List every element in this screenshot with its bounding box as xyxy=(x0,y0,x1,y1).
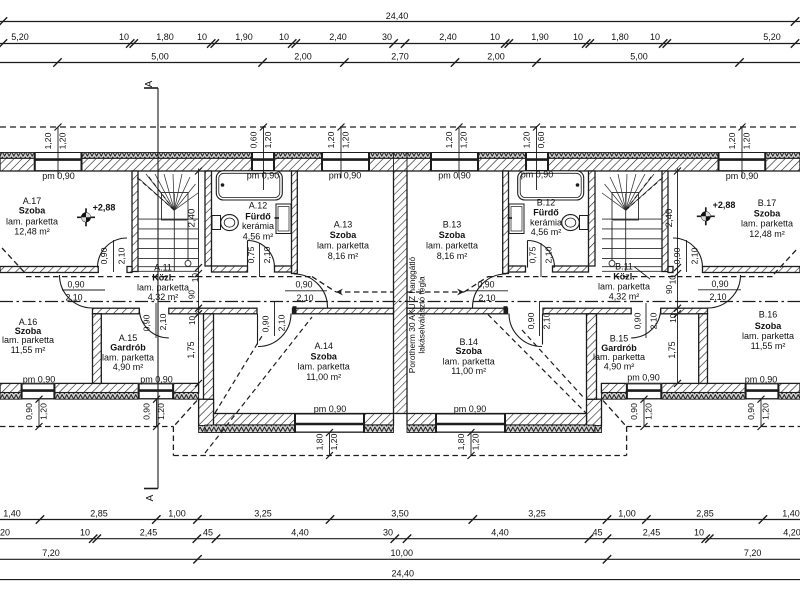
svg-text:5,00: 5,00 xyxy=(151,52,169,62)
svg-text:pm 0,90: pm 0,90 xyxy=(726,171,759,181)
door dim line B.12 (0,75 / 2,10) xyxy=(540,243,542,277)
svg-text:1,90: 1,90 xyxy=(531,32,549,42)
svg-text:lam. parketta: lam. parketta xyxy=(298,362,350,372)
svg-text:lakáselválasztó tégla: lakáselválasztó tégla xyxy=(417,276,427,354)
step wall right (B.14 east outer) xyxy=(587,399,602,426)
svg-text:24,40: 24,40 xyxy=(392,569,415,579)
top exterior wall band (brick) xyxy=(0,158,800,171)
dimension row total 24,40 (top) xyxy=(0,21,800,23)
top exterior wall insulation strip xyxy=(0,153,800,159)
window (top wall) x430 xyxy=(430,153,479,172)
svg-text:12,48 m²: 12,48 m² xyxy=(14,227,50,237)
svg-text:2,10: 2,10 xyxy=(649,312,659,329)
svg-text:lam. parketta: lam. parketta xyxy=(102,352,154,362)
stair walk line dashed rays (B unit) xyxy=(626,177,664,210)
svg-text:1,20: 1,20 xyxy=(341,131,351,148)
svg-text:Szoba: Szoba xyxy=(19,206,46,216)
corridor bottom wall segment 1 (A unit) xyxy=(93,308,140,314)
bottom exterior wall left section (brick) xyxy=(0,383,199,392)
dimension row total 24,40 (bottom) xyxy=(0,579,800,581)
section line A (vertical) xyxy=(157,88,159,489)
svg-text:4,56 m²: 4,56 m² xyxy=(531,227,562,237)
roof overhang dashed step B.13 xyxy=(464,277,488,292)
svg-text:10,00: 10,00 xyxy=(391,548,414,558)
svg-text:4,32 m²: 4,32 m² xyxy=(609,292,640,302)
svg-text:30: 30 xyxy=(383,528,393,538)
window (bottom side wall) x744 xyxy=(745,383,780,399)
svg-text:0,90: 0,90 xyxy=(67,280,84,290)
svg-text:1,75: 1,75 xyxy=(667,341,677,358)
roof dashed line with arrow (A side) xyxy=(336,291,393,293)
svg-text:3,25: 3,25 xyxy=(528,509,546,519)
svg-text:11,55 m²: 11,55 m² xyxy=(11,345,46,355)
svg-text:A.12: A.12 xyxy=(249,200,268,210)
svg-text:0,60: 0,60 xyxy=(249,131,259,148)
svg-text:1,20: 1,20 xyxy=(263,131,273,148)
svg-text:Fürdő: Fürdő xyxy=(533,208,559,218)
stair walk line start circle (B unit) xyxy=(609,260,615,266)
terrace dashed outline right vertical xyxy=(626,427,628,456)
label leader line B.11 xyxy=(634,267,650,280)
svg-text:pm 0,90: pm 0,90 xyxy=(329,171,362,181)
bathtub (B.12) xyxy=(518,171,584,200)
svg-text:1,00: 1,00 xyxy=(618,509,636,519)
svg-text:3,25: 3,25 xyxy=(254,509,272,519)
roof overhang dashed corridor line (A unit) xyxy=(26,276,312,278)
dimension row 2 (bottom) xyxy=(0,538,800,540)
svg-text:45: 45 xyxy=(203,528,213,538)
svg-text:1,20: 1,20 xyxy=(459,131,469,148)
window dim line top A.17 (1,20/1,20) xyxy=(57,127,59,178)
svg-text:10: 10 xyxy=(669,313,678,323)
svg-text:4,56 m²: 4,56 m² xyxy=(243,231,274,241)
stair winder fan (A unit) xyxy=(140,174,199,210)
dimension row 5,00/2,00/2,70 (top third row) xyxy=(0,62,800,64)
svg-text:1,00: 1,00 xyxy=(168,509,186,519)
terrace dashed outline right horizontal xyxy=(627,426,800,428)
svg-text:Szoba: Szoba xyxy=(310,351,337,361)
svg-text:10: 10 xyxy=(694,528,704,538)
svg-text:lam. parketta: lam. parketta xyxy=(317,241,369,251)
svg-text:A.17: A.17 xyxy=(23,196,42,206)
svg-text:B.11: B.11 xyxy=(615,262,633,272)
bathtub tap (B.12) xyxy=(576,183,580,187)
stair right wall (B unit) xyxy=(662,171,668,272)
svg-text:12,48 m²: 12,48 m² xyxy=(749,229,785,239)
door jamb piece B.17 xyxy=(668,267,673,273)
terrace dashed outline left horizontal xyxy=(0,426,173,428)
svg-text:A.15: A.15 xyxy=(119,333,138,343)
svg-text:B.15: B.15 xyxy=(610,333,629,343)
washbasin (A.12) xyxy=(276,204,291,234)
svg-text:1,20: 1,20 xyxy=(326,131,336,148)
svg-text:2,10: 2,10 xyxy=(709,292,726,302)
svg-text:4,32 m²: 4,32 m² xyxy=(148,292,179,302)
stair winder fan (B unit) xyxy=(602,174,661,210)
svg-text:0,90: 0,90 xyxy=(24,403,34,420)
svg-text:10: 10 xyxy=(119,32,129,42)
terrace dashed corner diagonal left xyxy=(174,401,197,427)
svg-text:A: A xyxy=(145,494,156,501)
svg-text:0,90: 0,90 xyxy=(711,279,728,289)
bathtub tap (A.12) xyxy=(221,183,225,187)
svg-text:2,00: 2,00 xyxy=(487,52,505,62)
door arc A.13 (corridor east end) xyxy=(294,274,328,308)
svg-text:pm 0,90: pm 0,90 xyxy=(314,404,347,414)
roof overhang dashed corner left xyxy=(2,248,26,274)
door dim line B.14 (0,90 / 2,10) xyxy=(539,301,541,336)
svg-text:1,20: 1,20 xyxy=(43,132,53,149)
svg-text:2,45: 2,45 xyxy=(643,528,661,538)
svg-text:Szoba: Szoba xyxy=(330,230,357,240)
svg-text:lam. parketta: lam. parketta xyxy=(137,283,189,293)
svg-text:10: 10 xyxy=(188,316,197,326)
door arc A.16 xyxy=(60,275,93,308)
svg-text:4,40: 4,40 xyxy=(291,528,309,538)
svg-text:0,90: 0,90 xyxy=(142,314,152,331)
door arc B.13 (corridor west end) xyxy=(473,274,507,308)
svg-text:3,50: 3,50 xyxy=(391,509,409,519)
svg-text:Szoba: Szoba xyxy=(439,230,466,240)
svg-text:4,90 m²: 4,90 m² xyxy=(113,362,144,372)
door dim line A.12 (0,75 / 2,10) xyxy=(259,243,261,277)
svg-text:2,10: 2,10 xyxy=(117,247,127,264)
window (top wall) x717 xyxy=(718,153,767,172)
svg-text:1,20: 1,20 xyxy=(58,132,68,149)
stair left wall (A unit) xyxy=(132,171,138,272)
svg-text:pm 0,90: pm 0,90 xyxy=(627,373,660,383)
svg-text:0,90: 0,90 xyxy=(629,403,639,420)
svg-text:1,90: 1,90 xyxy=(235,32,253,42)
roof overhang dashed corridor line (B unit) xyxy=(488,276,774,278)
svg-text:1,20: 1,20 xyxy=(522,131,532,148)
svg-text:Szoba: Szoba xyxy=(754,208,781,218)
window dim line bottom A.16 (0,90/1,20) xyxy=(38,399,40,426)
dimension row 7,20/10,00 (bottom) xyxy=(0,558,800,560)
door leaf+arc B.14 xyxy=(542,314,544,345)
svg-text:B.13: B.13 xyxy=(443,220,462,230)
svg-text:11,00 m²: 11,00 m² xyxy=(451,366,486,376)
svg-text:1,40: 1,40 xyxy=(782,509,800,519)
svg-text:1,20: 1,20 xyxy=(471,433,481,450)
svg-text:2,85: 2,85 xyxy=(90,509,108,519)
door leaf+arc bathroom B.12 xyxy=(527,241,529,268)
door leaf+arc bathroom A.12 xyxy=(247,241,249,268)
window (middle bottom wall) x294 xyxy=(294,414,365,433)
door jamb piece A.17 xyxy=(127,267,132,273)
svg-text:10: 10 xyxy=(573,32,583,42)
washbasin (B.12) xyxy=(509,204,524,234)
svg-text:2,10: 2,10 xyxy=(158,313,168,330)
svg-text:5,20: 5,20 xyxy=(11,32,29,42)
corridor bottom wall segment 3 / B.13 south wall xyxy=(407,308,508,314)
svg-text:0,60: 0,60 xyxy=(536,131,546,148)
door arc A.17 xyxy=(98,238,128,268)
svg-text:5,00: 5,00 xyxy=(630,52,648,62)
svg-text:10: 10 xyxy=(490,32,500,42)
svg-text:11,55 m²: 11,55 m² xyxy=(751,341,786,351)
svg-text:10: 10 xyxy=(650,32,660,42)
svg-text:1,20: 1,20 xyxy=(444,131,454,148)
svg-text:8,16 m²: 8,16 m² xyxy=(328,251,359,261)
window (bottom side wall) x137 xyxy=(138,383,174,399)
svg-text:10: 10 xyxy=(197,32,207,42)
window dim line bottom A.14 (1,80/1,20) xyxy=(329,433,331,456)
svg-text:0,75: 0,75 xyxy=(246,246,256,263)
wall between B.16 and B.15 xyxy=(699,314,708,384)
svg-text:1,80: 1,80 xyxy=(315,433,325,450)
bathroom B.12 south wall segments xyxy=(553,266,589,272)
section mark A top xyxy=(144,87,158,89)
svg-text:A.13: A.13 xyxy=(334,220,353,230)
stair landing rectangle (B unit) xyxy=(612,193,639,221)
terrace dashed outline bottom xyxy=(173,455,626,457)
svg-text:lam. parketta: lam. parketta xyxy=(6,216,58,226)
svg-text:1,40: 1,40 xyxy=(3,509,21,519)
dimension row 1 (bottom) xyxy=(0,519,800,521)
svg-text:0,75: 0,75 xyxy=(528,246,538,263)
svg-text:+2,88: +2,88 xyxy=(93,203,116,213)
door arc B.15 xyxy=(631,308,661,338)
door dim line A.15 (0,90 / 2,10) xyxy=(155,303,157,338)
svg-text:1,80: 1,80 xyxy=(156,32,174,42)
svg-text:pm 0,90: pm 0,90 xyxy=(140,375,173,385)
stair walk line dashed rays (A unit) xyxy=(137,177,175,210)
party wall Porotherm 30 (center) xyxy=(394,171,408,414)
roof diagonal dashed B.14 #2 xyxy=(522,330,584,398)
vertical dim chain stair (B unit) 2,40/10/90/10/1,75 xyxy=(677,169,679,384)
svg-text:0,90: 0,90 xyxy=(672,247,682,264)
svg-text:90: 90 xyxy=(665,285,674,295)
svg-text:2,10: 2,10 xyxy=(544,246,554,263)
svg-text:pm 0,90: pm 0,90 xyxy=(42,171,75,181)
svg-text:10: 10 xyxy=(279,32,289,42)
svg-text:lam. parketta: lam. parketta xyxy=(742,331,794,341)
door dim line A.17 (0,90 / 2,10) xyxy=(113,240,115,272)
svg-text:2,10: 2,10 xyxy=(262,246,272,263)
window dim line top B.13 (1,20/1,20) xyxy=(458,127,460,178)
roof diagonal dashed A.14 #1 xyxy=(215,336,262,413)
svg-text:pm 0,90: pm 0,90 xyxy=(521,170,554,180)
stair treads (A unit) xyxy=(138,194,198,272)
svg-text:1,20: 1,20 xyxy=(742,132,752,149)
svg-text:pm 0,90: pm 0,90 xyxy=(745,375,778,385)
window dim line top B.17 (1,20/1,20) xyxy=(741,127,743,178)
svg-text:B.17: B.17 xyxy=(758,198,777,208)
roof overhang dashed line (top) xyxy=(0,126,800,128)
svg-text:lam. parketta: lam. parketta xyxy=(426,241,478,251)
window (top wall) x321 xyxy=(321,153,370,172)
dimension row detail (top second row) xyxy=(0,43,800,45)
door arc A.15 xyxy=(139,308,169,338)
svg-text:1,20: 1,20 xyxy=(727,132,737,149)
svg-text:0,90: 0,90 xyxy=(261,315,271,332)
svg-text:pm 0,90: pm 0,90 xyxy=(247,171,280,181)
svg-text:lam. parketta: lam. parketta xyxy=(741,219,793,229)
roof diagonal dashed B.14 #1 xyxy=(488,315,586,414)
svg-text:7,20: 7,20 xyxy=(744,548,762,558)
stair treads (B unit) xyxy=(602,194,662,272)
svg-text:30: 30 xyxy=(382,32,392,42)
svg-text:1,80: 1,80 xyxy=(456,433,466,450)
window (top wall) x33 xyxy=(34,153,83,172)
corridor bottom wall segment 1 (B unit) xyxy=(661,308,708,314)
terrace dashed corner diagonal right xyxy=(603,401,626,427)
WC (B.12) xyxy=(580,216,589,230)
svg-text:Közl.: Közl. xyxy=(152,273,174,283)
bottom exterior wall right insulation xyxy=(601,393,800,400)
vertical dim chain stair (A unit) 2,40/10/90/10/1,75 xyxy=(198,169,200,384)
svg-text:4,90 m²: 4,90 m² xyxy=(604,362,635,372)
svg-text:1,80: 1,80 xyxy=(611,32,629,42)
svg-text:A.14: A.14 xyxy=(314,341,333,351)
step wall left (A.14 west outer) xyxy=(199,399,214,426)
elevation marker +2,88 (A.17) xyxy=(77,216,95,218)
svg-text:2,45: 2,45 xyxy=(140,528,158,538)
svg-text:10: 10 xyxy=(191,273,200,283)
svg-text:Szoba: Szoba xyxy=(755,321,782,331)
svg-text:0,90: 0,90 xyxy=(99,247,109,264)
svg-text:0,90: 0,90 xyxy=(142,403,152,420)
corridor bottom wall segment 3 / A.13 south wall xyxy=(293,308,394,314)
svg-text:2,10: 2,10 xyxy=(690,247,700,264)
svg-text:7,20: 7,20 xyxy=(42,548,60,558)
wall between A.15 and A.14 xyxy=(204,314,214,399)
svg-text:Porotherm 30 AKU Z hanggátló: Porotherm 30 AKU Z hanggátló xyxy=(407,256,417,373)
window dim line top A.13 (1,20/1,20) xyxy=(340,127,342,178)
window dim line bottom A.15 (0,90/1,20) xyxy=(156,399,158,426)
middle bottom wall B.14 insulation xyxy=(407,425,595,433)
center axis dash-dot line xyxy=(0,301,800,303)
roof overhang dashed step A.13 xyxy=(312,277,336,292)
roof dashed line with arrow (B side) xyxy=(407,291,464,293)
svg-text:1,20: 1,20 xyxy=(761,403,771,420)
svg-text:kerámia: kerámia xyxy=(530,218,562,228)
svg-text:Szoba: Szoba xyxy=(455,346,482,356)
window (middle bottom wall) x435 xyxy=(435,414,506,433)
middle bottom wall A.14 insulation xyxy=(205,425,394,433)
svg-text:lam. parketta: lam. parketta xyxy=(598,282,650,292)
stair walk line (A unit) xyxy=(187,221,189,260)
door arc B.16 xyxy=(708,275,741,308)
middle bottom wall B.14 (brick) xyxy=(407,414,587,426)
svg-text:B.16: B.16 xyxy=(759,310,778,320)
window dim line bottom B.16 (0,90/1,20) xyxy=(760,399,762,426)
svg-text:10: 10 xyxy=(669,275,678,285)
svg-text:B.12: B.12 xyxy=(537,198,556,208)
svg-text:lam. parketta: lam. parketta xyxy=(2,335,54,345)
door leaf+arc A.14 xyxy=(257,314,259,345)
svg-text:1,75: 1,75 xyxy=(186,341,196,358)
svg-text:A.11: A.11 xyxy=(154,262,172,272)
svg-text:lam. parketta: lam. parketta xyxy=(593,352,645,362)
stair walk line (B unit) xyxy=(611,221,613,260)
window (bottom side wall) x20 xyxy=(21,383,56,399)
svg-text:4,20: 4,20 xyxy=(783,528,800,538)
window (top wall) x525 xyxy=(525,153,549,172)
svg-text:24,40: 24,40 xyxy=(386,11,409,21)
bathroom A.12 east wall xyxy=(292,171,298,274)
door dim line B.15 (0,90 / 2,10) xyxy=(645,303,647,338)
svg-text:0,90: 0,90 xyxy=(295,280,312,290)
svg-text:2,70: 2,70 xyxy=(391,52,409,62)
window (bottom side wall) x625 xyxy=(626,383,662,399)
stair landing rectangle (A unit) xyxy=(162,193,189,221)
svg-text:2,40: 2,40 xyxy=(187,209,198,228)
svg-text:8,16 m²: 8,16 m² xyxy=(437,251,468,261)
svg-text:2,10: 2,10 xyxy=(277,314,287,331)
bathroom A.12 west wall xyxy=(205,171,212,266)
window (top wall) x251 xyxy=(251,153,275,172)
svg-text:5,20: 5,20 xyxy=(763,32,781,42)
bathroom B.12 east wall xyxy=(589,171,596,266)
bathroom B.12 west wall xyxy=(503,171,509,274)
door dim line B.17 (0,90 / 2,10) xyxy=(686,240,688,272)
bathroom A.12 south wall segments xyxy=(212,266,248,272)
svg-text:0,90: 0,90 xyxy=(526,312,536,329)
svg-text:A: A xyxy=(144,80,155,87)
wall between A.16 and A.15 xyxy=(93,314,102,384)
svg-text:Fürdő: Fürdő xyxy=(245,211,271,221)
window dim line top A.12 (0,60/1,20) xyxy=(263,126,265,190)
window dim line bottom B.14 (1,80/1,20) xyxy=(470,433,472,456)
bottom exterior wall left insulation xyxy=(0,393,199,400)
svg-text:2,10: 2,10 xyxy=(542,312,552,329)
WC (A.12) xyxy=(212,216,221,230)
svg-text:2,40: 2,40 xyxy=(439,32,457,42)
svg-text:pm 0,90: pm 0,90 xyxy=(438,171,471,181)
roof diagonal dashed A.14 #2 xyxy=(205,317,312,453)
corridor top wall east segment (B unit) xyxy=(703,267,800,273)
svg-text:+2,88: +2,88 xyxy=(713,200,736,210)
svg-text:4,40: 4,40 xyxy=(491,528,509,538)
svg-text:Gardrób: Gardrób xyxy=(110,343,146,353)
section mark A bottom xyxy=(144,488,158,490)
corridor bottom wall segment 2 (A unit) xyxy=(169,308,257,314)
svg-text:lam. parketta: lam. parketta xyxy=(443,356,495,366)
bottom exterior wall right section (brick) xyxy=(601,383,800,392)
svg-text:1,20: 1,20 xyxy=(329,433,339,450)
svg-text:1,20: 1,20 xyxy=(156,403,166,420)
svg-text:45: 45 xyxy=(592,528,602,538)
corridor bottom wall segment 2 (B unit) xyxy=(543,308,631,314)
bathtub (A.12) xyxy=(216,171,282,200)
door jamb block A.13 xyxy=(293,306,297,314)
window dim line bottom B.15 (0,90/1,20) xyxy=(643,399,645,426)
middle bottom wall A.14 (brick) xyxy=(214,414,394,426)
door jamb block B.13 xyxy=(504,306,508,314)
svg-text:kerámia: kerámia xyxy=(242,221,274,231)
wall between B.15 and B.14 xyxy=(587,314,597,399)
svg-text:pm 0,90: pm 0,90 xyxy=(23,375,56,385)
svg-text:1,20: 1,20 xyxy=(644,403,654,420)
stair walk line start circle (A unit) xyxy=(185,260,191,266)
door arc B.17 xyxy=(673,238,703,268)
svg-text:2,00: 2,00 xyxy=(294,52,312,62)
svg-text:Közl.: Közl. xyxy=(613,272,635,282)
svg-text:2,40: 2,40 xyxy=(664,209,675,228)
svg-text:1,20: 1,20 xyxy=(39,403,49,420)
svg-text:20: 20 xyxy=(0,528,10,538)
roof overhang dashed corner right xyxy=(774,248,798,274)
svg-text:11,00 m²: 11,00 m² xyxy=(306,372,341,382)
window dim line top B.12 (1,20/0,60) xyxy=(536,126,538,190)
svg-text:pm 0,90: pm 0,90 xyxy=(454,404,487,414)
svg-text:2,85: 2,85 xyxy=(696,509,714,519)
terrace dashed outline left vertical xyxy=(172,427,174,456)
door dim line A.14 (0,90 / 2,10) xyxy=(274,301,276,336)
svg-text:10: 10 xyxy=(80,528,90,538)
